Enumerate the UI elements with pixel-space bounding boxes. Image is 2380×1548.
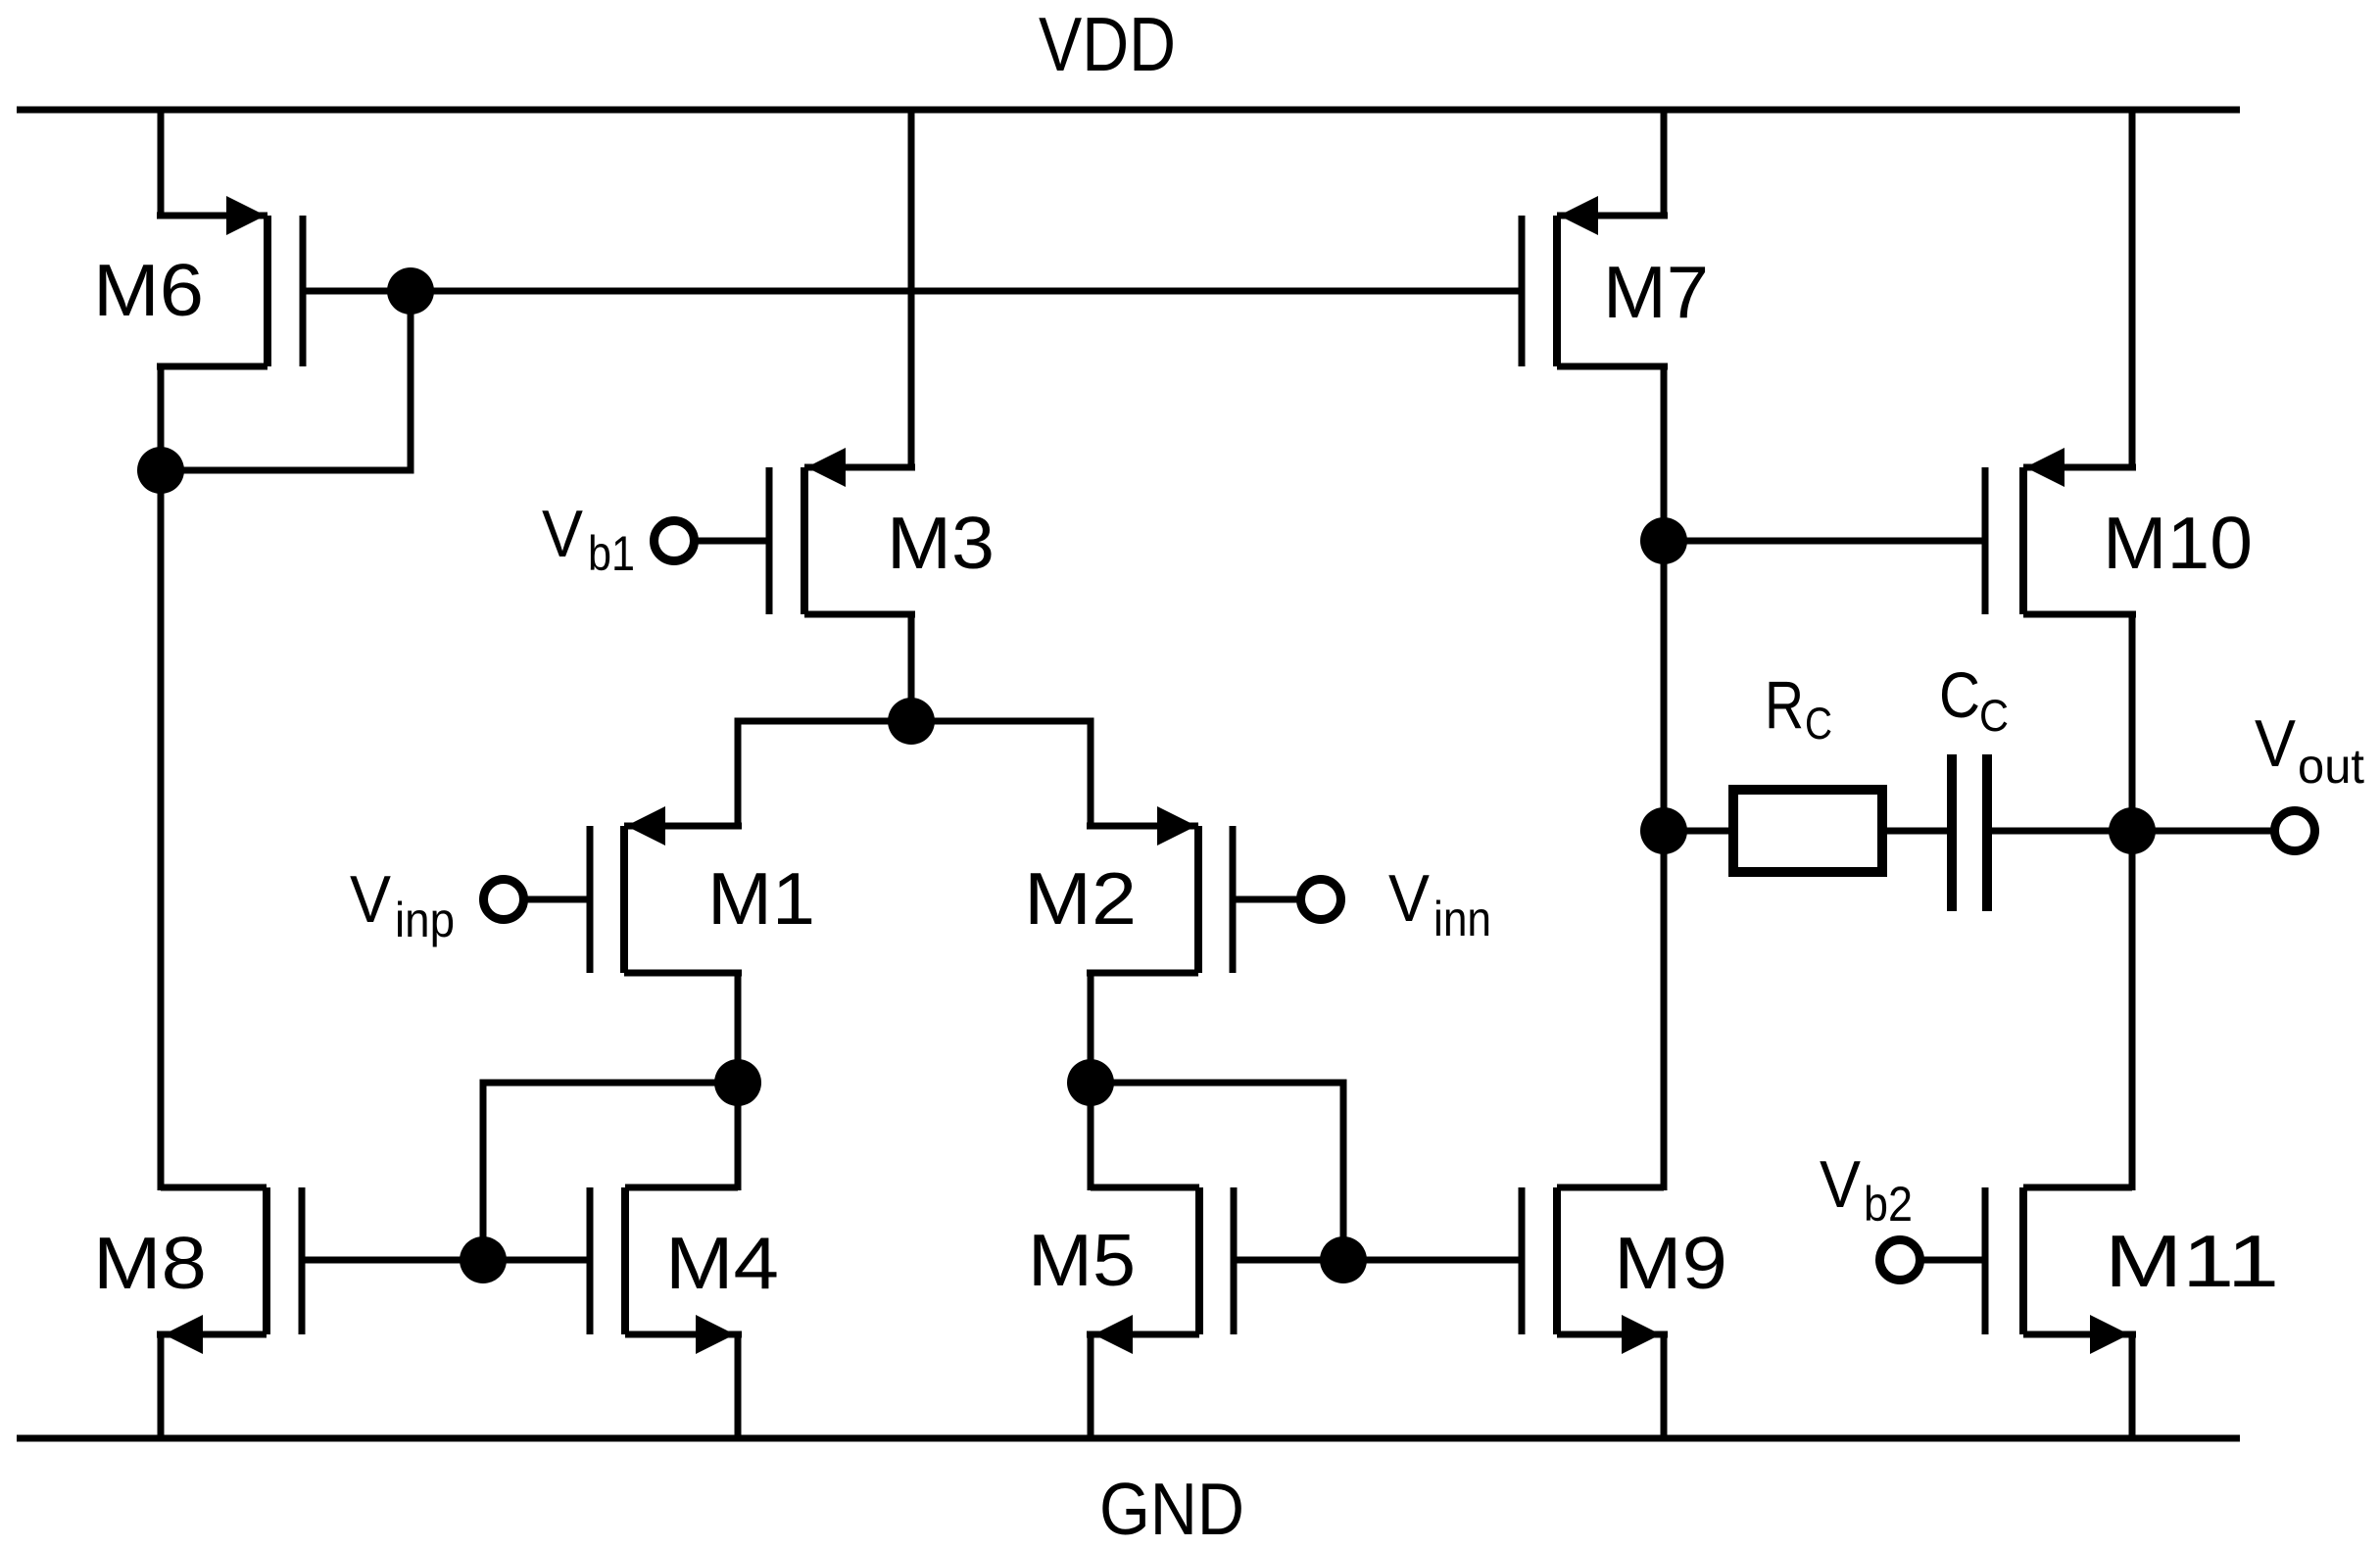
transistor M8 [157,1187,302,1354]
terminal Vb2 [1880,1240,1920,1281]
transistor M2 [1087,806,1298,973]
node M10 gate junction [1640,517,1687,564]
wire gate line M6 to M7 [303,288,1522,295]
capacitor CC [1952,754,1987,911]
label CC [1939,658,2009,741]
wire M11 source to GND [2129,1334,2136,1438]
wire M7 drain to M9 drain [1661,366,1668,1190]
svg-text:V: V [2255,706,2297,781]
wire M9 source to GND [1661,1334,1668,1438]
wire M1 drain to M4 drain [735,973,742,1190]
transistor M3 [698,448,915,614]
wire gate line M8 to M4 [302,1257,590,1264]
label Vinp [350,862,455,947]
svg-text:M11: M11 [2105,1220,2279,1302]
label Vb1 [542,497,635,581]
svg-text:M10: M10 [2103,502,2253,584]
svg-text:M4: M4 [665,1222,779,1304]
wire M8 source to GND [158,1334,165,1438]
node M6 gate junction [387,267,434,314]
wire M5 source to GND [1088,1334,1094,1438]
node M2 drain junction [1067,1059,1114,1106]
svg-text:V: V [350,862,392,937]
svg-text:b2: b2 [1864,1177,1913,1232]
node M5 gate link junction [1320,1236,1367,1283]
terminal Vout [2275,811,2315,851]
svg-text:V: V [1820,1147,1862,1222]
label Vinn [1388,861,1491,946]
svg-text:V: V [1388,861,1431,936]
node tail junction [888,698,935,745]
wire cross link to M4 gate [483,1083,738,1260]
svg-text:C: C [1979,691,2009,741]
svg-text:M6: M6 [93,249,204,331]
svg-text:M8: M8 [93,1222,207,1304]
node M4 gate link junction [460,1236,507,1283]
wire RC to CC [1882,828,1948,835]
svg-text:VDD: VDD [1039,1,1176,87]
transistor M11 [1922,1187,2136,1354]
transistor M4 [590,1187,742,1354]
terminal Vinn [1301,880,1341,920]
wire second stage to RC [1664,828,1733,835]
resistor RC [1733,790,1882,872]
node Vout junction [2109,807,2156,854]
label Vb2 [1820,1147,1913,1232]
wire M2 drain to M5 drain [1088,973,1094,1190]
wire Vout node to terminal [2132,828,2273,835]
svg-text:M3: M3 [887,502,995,584]
wire cross link to M5 M9 gates [1091,1083,1343,1260]
svg-text:M2: M2 [1024,857,1137,940]
terminal Vinp [484,880,524,920]
wire M10 gate lead [1664,538,1985,545]
svg-text:M9: M9 [1614,1222,1727,1304]
svg-text:M1: M1 [707,857,815,940]
svg-text:M7: M7 [1603,251,1709,333]
node M6 drain junction [137,447,184,494]
terminal Vb1 [655,521,695,561]
svg-text:R: R [1765,667,1804,743]
GND rail [17,1435,2240,1442]
wire gate line M5 to M9 [1234,1257,1522,1264]
svg-text:out: out [2298,739,2364,794]
node second stage junction [1640,807,1687,854]
VDD rail [17,107,2240,114]
transistor M9 [1522,1187,1668,1354]
label RC [1765,667,1832,749]
wire tail node [738,614,1091,826]
wire M6 diode tie [158,291,411,470]
svg-text:GND: GND [1099,1468,1244,1548]
svg-text:C: C [1939,658,1980,731]
wire VDD to M3 source [908,110,915,467]
wire VDD to M6 source [158,110,165,216]
wire M6 drain to M8 drain [158,363,165,1190]
transistor M1 [526,806,742,973]
wire M4 source to GND [735,1334,742,1438]
transistor M5 [1087,1187,1234,1354]
svg-text:C: C [1805,699,1832,749]
svg-text:inp: inp [395,893,455,947]
wire CC to Vout node [1992,828,2132,835]
transistor M10 [1985,448,2136,614]
svg-text:V: V [542,497,584,571]
transistor M6 [157,196,303,366]
svg-text:M5: M5 [1028,1219,1136,1301]
label Vout [2255,706,2364,794]
svg-text:inn: inn [1433,892,1491,946]
node M1 drain junction [714,1059,761,1106]
svg-text:b1: b1 [588,526,635,581]
transistor M7 [1522,196,1668,366]
wire VDD to M7 source [1661,110,1668,216]
wire VDD to M10 source [2129,110,2136,467]
wire M10 drain to M11 drain [2129,614,2136,1190]
